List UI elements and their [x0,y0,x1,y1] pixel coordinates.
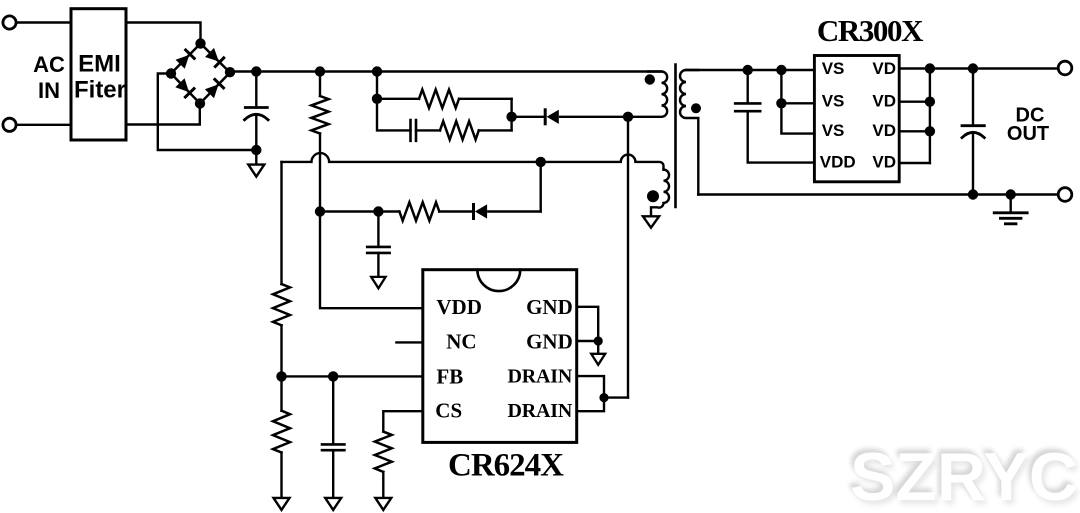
junction dot rail-R1 [315,66,325,76]
ground arrow under R7 [375,498,391,510]
CS resistor R7 zigzag [375,432,392,472]
chip U2 CR300X box [814,56,899,182]
svg-text:GND: GND [526,329,573,353]
VD2 stub [899,100,930,102]
svg-text:GND: GND [526,295,573,319]
transformer core [674,65,677,208]
drain line from primary node down [627,117,629,398]
VDD filter cap C3 lead [377,212,379,247]
junction dot rail-C5 [743,65,753,75]
junction dot rail-C1 [251,66,261,76]
DRAIN pin wires [577,376,604,411]
FB filter cap C4 lead [332,376,334,444]
junction dot FB-C4 [328,371,338,381]
svg-text:IN: IN [38,78,60,103]
cap C5 plates [735,103,760,111]
C6 lower lead [972,134,974,195]
clamp diode D5 [544,110,547,124]
junction dot primary-drain [623,112,633,122]
ground arrow under C3 [371,277,385,288]
C3 lower lead [377,253,379,276]
svg-text:VD: VD [872,153,896,172]
VD4 stub [899,162,930,164]
wire VDD node down and to VDD pin [320,212,423,309]
snubber top lead from rail [376,72,378,99]
transformer primary winding [628,72,667,117]
bridge diode D2 upper-right [205,48,224,67]
junction dot C6 bottom [968,189,978,199]
snubber capacitor C2 plates [411,120,417,141]
FB line to chip [282,375,423,377]
wire EMI bottom out to bridge bottom [126,104,200,125]
junction dot VD1 [925,63,935,73]
junction dot bridge bottom [195,98,205,108]
junction dot C1 ground [251,145,261,155]
output ground stub [1010,195,1012,213]
wire clamp diode to primary node [560,116,628,118]
VD collector vertical [929,69,931,164]
svg-text:VS: VS [822,121,845,140]
junction dot GND pins [594,336,603,345]
ground arrow under bulk cap [248,165,264,177]
wire R5 to FB node [280,325,282,376]
GND ground lead [597,341,599,353]
R7 lead to ground [382,472,384,498]
VS2 wire [781,70,814,103]
watermark SZRYC [848,438,1080,513]
ground arrow under aux winding [643,216,659,227]
wire AC top to EMI [16,21,71,23]
svg-text:VDD: VDD [436,295,482,319]
ground arrow under R6 [274,498,290,510]
junction dot VD3 [925,126,935,136]
snubber resistor R2 leads [377,98,512,100]
wire snubber to clamp diode [512,116,545,118]
aux winding supply line with hops [282,153,664,170]
svg-text:NC: NC [446,329,476,353]
junction dot aux-feedback [536,157,546,167]
C4 lower lead [332,450,334,497]
ground symbol bars [994,213,1027,224]
bulk capacitor C1 lower lead [255,116,257,151]
resistor R1 startup zigzag [311,96,328,134]
VS3 wire [781,103,814,133]
primary polarity dot [645,74,655,84]
junction dot bridge left [166,68,176,78]
R6 lead to ground [280,453,282,498]
svg-text:VD: VD [872,92,896,111]
svg-text:CS: CS [435,399,462,423]
bridge rectifier diamond [171,44,230,104]
output cap C6 lead [972,69,974,126]
svg-text:DRAIN: DRAIN [508,366,573,388]
junction dot bridge top [195,38,205,48]
junction dot C3 node [373,206,383,216]
ground arrow under C4 [325,498,341,510]
junction dot FB-R5 [276,371,286,381]
svg-text:VS: VS [822,59,845,78]
divider resistor R5 zigzag [273,284,290,325]
svg-text:VD: VD [872,121,896,140]
wire R4 to VDD node [320,210,399,212]
secondary polarity dot [691,103,701,113]
wire aux feedback to diode [488,210,540,212]
aux divider corner down [280,162,282,284]
junction dot output ground [1006,189,1016,199]
bulk capacitor C1 lead [255,72,257,108]
svg-text:VS: VS [822,92,845,111]
junction dot VD2 [925,97,935,107]
C5 bottom to VDD pin [748,111,815,162]
CS wire from chip [383,411,423,431]
snubber right vertical [510,99,512,131]
feedback resistor R4 zigzag [399,202,439,220]
output cap C5 lead [747,70,749,103]
svg-text:EMI: EMI [78,51,121,78]
bridge diode D4 lower-right [205,79,224,98]
svg-text:AC: AC [33,52,65,77]
wire EMI top out to bridge top [126,23,201,44]
aux polarity dot [647,190,659,202]
divider resistor R6 lead [280,376,282,410]
svg-text:CR300X: CR300X [817,13,924,48]
EMI filter box [71,9,126,140]
snubber lower branch wires [377,99,512,131]
NC pin stub [396,341,422,343]
bridge diode D1 upper-left [176,50,195,69]
terminal AC bottom [3,118,16,131]
svg-text:CR624X: CR624X [448,448,564,484]
junction dot VDD node [315,206,325,216]
svg-text:VDD: VDD [820,153,856,172]
terminal AC top [3,16,16,29]
snubber resistor R2 zigzag [419,90,459,108]
svg-text:DRAIN: DRAIN [508,400,573,422]
resistor R1 startup upper lead [319,72,321,97]
svg-text:VD: VD [872,59,896,78]
VDD filter cap C3 plates [367,247,389,253]
transformer secondary winding [680,70,698,195]
svg-text:Fiter: Fiter [74,77,126,104]
feedback diode D6 [472,205,475,219]
junction dot rail-snubber [372,66,382,76]
junction dot C6 top [968,63,978,73]
junction dot snubber right [506,112,516,122]
FB filter cap C4 plates [322,444,344,450]
junction dot snubber top-left [372,94,382,104]
junction dot VS2 [776,98,786,108]
wire bridge left node to ground rail [158,74,256,151]
VD rail right [899,67,1058,69]
VD3 stub [899,130,930,132]
terminal DC bottom [1058,188,1072,202]
GND pin wires [577,307,599,341]
wire bulk cap bottom to ground [255,150,257,164]
DC output bottom rail [698,193,1058,195]
chip U1 notch [477,270,520,291]
junction dot bridge right [225,67,235,77]
feedback takeoff down from aux line [540,162,542,212]
terminal DC top [1058,61,1072,75]
secondary top rail to VS1 [686,69,814,71]
junction dot DRAIN pins [599,393,608,402]
chip U1 CR624X box [423,270,577,443]
junction dot rail-VS [776,65,786,75]
wire drain node to drain line [604,396,628,398]
ground arrow under GND pin [591,354,605,365]
svg-text:OUT: OUT [1007,123,1049,145]
transformer aux winding [651,170,669,216]
wire R1 bottom down to VDD node [319,134,321,212]
bridge diode D3 lower-left [175,78,194,97]
main HV rail [230,70,662,72]
divider resistor R6 zigzag [273,411,290,453]
svg-text:FB: FB [436,364,463,388]
wire diode to feedback resistor R4 [439,210,473,212]
wire AC bottom to EMI [16,124,71,126]
bulk capacitor C1 plates [245,106,267,109]
snubber resistor R3 zigzag [440,121,479,139]
output cap C6 plates [962,124,984,127]
